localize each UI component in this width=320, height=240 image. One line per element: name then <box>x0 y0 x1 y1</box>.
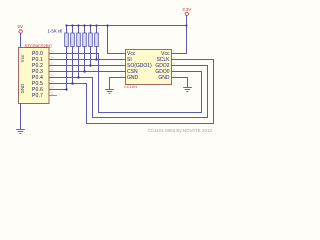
svg-text:3.3V: 3.3V <box>182 7 191 12</box>
svg-text:GND: GND <box>158 75 170 81</box>
svg-text:Vcc: Vcc <box>20 54 25 62</box>
svg-text:34: 34 <box>51 79 55 83</box>
svg-text:GND: GND <box>127 75 139 81</box>
svg-text:1-5K x6: 1-5K x6 <box>48 29 63 34</box>
svg-text:5V: 5V <box>18 24 23 29</box>
svg-text:CC1101 5004 By NOVATE 2012: CC1101 5004 By NOVATE 2012 <box>148 128 213 133</box>
svg-text:37: 37 <box>51 61 55 65</box>
svg-text:GND: GND <box>20 83 25 93</box>
svg-text:36: 36 <box>51 67 55 71</box>
svg-text:CC1101: CC1101 <box>124 85 138 89</box>
svg-text:33: 33 <box>51 85 55 89</box>
svg-text:38: 38 <box>51 55 55 59</box>
svg-text:P0.7: P0.7 <box>32 93 43 99</box>
svg-text:39: 39 <box>51 49 55 53</box>
svg-text:STC89C52RC: STC89C52RC <box>25 43 52 48</box>
svg-text:10: 10 <box>173 73 177 77</box>
svg-text:35: 35 <box>51 73 55 77</box>
svg-text:32: 32 <box>51 91 55 95</box>
